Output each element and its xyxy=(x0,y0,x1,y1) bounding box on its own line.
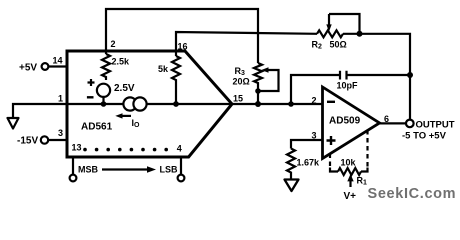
svg-text:LSB: LSB xyxy=(160,165,179,175)
svg-text:2: 2 xyxy=(111,39,116,49)
+5V terminal xyxy=(42,63,49,70)
LSB terminal xyxy=(178,175,185,182)
ground (under 1.67k) xyxy=(285,180,299,192)
op-amp U2 AD509 xyxy=(323,87,380,159)
svg-text:13: 13 xyxy=(72,143,82,153)
resistor 2.5k (internal) xyxy=(102,54,110,80)
-15V terminal xyxy=(41,136,48,143)
wire: capacitor right plate to output vertical xyxy=(348,74,411,76)
DAC U1 AD561 body xyxy=(67,51,232,157)
svg-text:SeekIC.com: SeekIC.com xyxy=(368,186,457,202)
R3 wiper arrow and strap xyxy=(260,70,279,91)
junction: feedback tap node xyxy=(288,101,294,107)
svg-text:3: 3 xyxy=(58,128,63,138)
wire: node to capacitor left plate xyxy=(291,75,339,104)
wire: pin 16 up and right to R2 xyxy=(176,32,317,56)
wire: R2 right to output vertical xyxy=(343,34,410,120)
svg-text:AD561: AD561 xyxy=(81,122,113,133)
non-inverting input plus sign xyxy=(327,136,336,145)
IO arrow xyxy=(121,115,131,117)
digital input pin dots xyxy=(83,148,168,152)
wire: AD509 pin 6 to output terminal xyxy=(380,122,406,124)
MSB terminal xyxy=(70,175,77,182)
resistor 5k (internal) xyxy=(172,56,180,104)
svg-text:1.67k: 1.67k xyxy=(297,158,321,168)
R1 wiper arrow from V+ xyxy=(349,181,351,188)
svg-text:V+: V+ xyxy=(344,191,357,202)
capacitor C1 10pF xyxy=(340,71,347,80)
svg-text:20Ω: 20Ω xyxy=(233,77,250,87)
svg-text:50Ω: 50Ω xyxy=(330,40,347,50)
svg-text:MSB: MSB xyxy=(78,165,99,175)
junction: R2 wiper to wire xyxy=(357,31,363,37)
wire: AD509 pin 3 to 1.67k xyxy=(291,140,323,149)
svg-text:2.5V: 2.5V xyxy=(114,83,135,94)
svg-text:4: 4 xyxy=(177,144,182,154)
wire: AD561 pin 1 to left ground xyxy=(13,104,67,118)
svg-text:-5 TO +5V: -5 TO +5V xyxy=(402,130,447,141)
dashed wire: offset null pins to R1 ends xyxy=(329,154,331,168)
svg-text:5k: 5k xyxy=(158,64,169,74)
voltage source 2.5V xyxy=(97,84,110,97)
svg-text:2.5k: 2.5k xyxy=(112,57,131,67)
R2 wiper arrow and strap xyxy=(329,14,360,34)
svg-text:OUTPUT: OUTPUT xyxy=(416,120,455,131)
wire: pin 2 up over the top to R3 xyxy=(106,9,258,63)
wire: pin 15 node to AD509 pin 2 xyxy=(232,103,322,105)
resistor R3 20 ohm xyxy=(254,63,262,104)
output terminal xyxy=(406,120,414,128)
wire: -15V terminal to pin 3 xyxy=(48,139,67,141)
wire: internal bus pin1 to pin15 vertex xyxy=(67,103,232,105)
current source IO xyxy=(123,97,136,110)
ground (left) xyxy=(8,118,19,129)
svg-text:10k: 10k xyxy=(341,158,357,168)
svg-text:10pF: 10pF xyxy=(337,81,359,91)
svg-text:2: 2 xyxy=(312,96,317,106)
wire: MSB pin 13 stub xyxy=(72,157,74,175)
inverting input minus sign xyxy=(327,101,335,103)
junction: R3 to bus xyxy=(255,101,261,107)
junction: R3 wiper to lead xyxy=(255,88,261,94)
svg-text:-15V: -15V xyxy=(17,136,38,147)
wire: LSB pin 4 stub xyxy=(180,157,182,175)
wire: +5V terminal to pin 14 xyxy=(48,65,67,67)
svg-text:16: 16 xyxy=(178,42,188,52)
svg-text:AD509: AD509 xyxy=(329,116,361,127)
svg-text:14: 14 xyxy=(53,56,63,66)
svg-text:1: 1 xyxy=(58,94,63,104)
resistor 1.67k xyxy=(287,149,295,180)
junction: capacitor to output vertical xyxy=(407,72,413,78)
junction: 5k to bus xyxy=(173,101,179,107)
MSB to LSB arrow xyxy=(102,168,148,170)
potentiometer R1 10k xyxy=(330,168,368,172)
resistor R2 50 ohm xyxy=(317,30,343,37)
svg-text:15: 15 xyxy=(233,94,243,104)
svg-text:+5V: +5V xyxy=(19,63,37,74)
junction: 2.5V source to bus xyxy=(101,101,107,107)
